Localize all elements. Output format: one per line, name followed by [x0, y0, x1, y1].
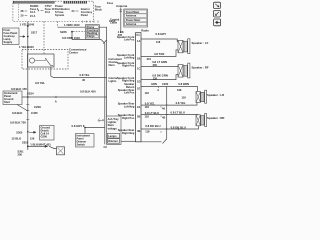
- wire RF neg: [141, 75, 178, 80]
- svg-text:200: 200: [153, 63, 158, 67]
- svg-text:Radio: Radio: [141, 28, 149, 32]
- fuse block dashed box: [13, 1, 94, 21]
- fuse RADIO label column: [30, 4, 39, 18]
- svg-text:Block: Block: [95, 8, 103, 12]
- svg-text:118: 118: [182, 96, 187, 100]
- svg-text:15 A: 15 A: [30, 14, 36, 18]
- wire LF pos: [141, 39, 178, 41]
- svg-text:Speaker : LF: Speaker : LF: [192, 41, 209, 45]
- fuse block hatched top bar 2: [64, 1, 88, 4]
- svg-text:0.8 YEL: 0.8 YEL: [35, 81, 45, 85]
- svg-text:198: 198: [177, 88, 182, 92]
- svg-text:156: 156: [30, 137, 35, 141]
- left ground box: [3, 91, 22, 105]
- arrow to ground callout: [29, 131, 36, 133]
- speaker LR: [196, 90, 207, 103]
- svg-text:A: A: [157, 88, 159, 92]
- node dot on yel dropper: [27, 25, 29, 27]
- ground wire horizontal: [22, 96, 107, 98]
- radio pin numbers: [137, 39, 140, 133]
- svg-text:C1: C1: [136, 33, 140, 37]
- svg-text:Power Mast: Power Mast: [126, 18, 141, 22]
- ground line down x28: [27, 97, 29, 150]
- svg-text:System: System: [55, 13, 65, 17]
- wire diagonal from ground box: [17, 105, 28, 112]
- svg-text:10 A: 10 A: [45, 10, 51, 14]
- ground distribution callout box: [40, 126, 55, 141]
- svg-text:Right Neg: Right Neg: [122, 79, 135, 83]
- antenna lead wire: [120, 8, 122, 34]
- ground G303 box: [57, 147, 65, 155]
- svg-text:Right Neg: Right Neg: [122, 131, 135, 135]
- svg-text:Dimmer: Dimmer: [108, 139, 118, 143]
- svg-text:Center: Center: [69, 51, 79, 55]
- svg-text:0.8 GRY 8: 0.8 GRY 8: [72, 124, 85, 128]
- dimmer branch wire: [85, 128, 105, 134]
- svg-text:Stud: Stud: [4, 100, 10, 104]
- svg-text:C405: C405: [31, 111, 38, 115]
- svg-text:0.8 TAN: 0.8 TAN: [154, 52, 164, 56]
- connector A marker: [55, 96, 57, 104]
- svg-text:1D: 1D: [137, 80, 140, 84]
- svg-text:Right Pos: Right Pos: [122, 64, 135, 68]
- svg-text:118: 118: [145, 105, 150, 109]
- connector cross marker: [177, 128, 179, 130]
- svg-text:0.8 LT BLU: 0.8 LT BLU: [171, 110, 185, 114]
- nav button 2: [214, 10, 221, 17]
- svg-text:Cable: Cable: [110, 21, 118, 25]
- svg-text:0.8 LT BLU: 0.8 LT BLU: [145, 111, 159, 115]
- interior lights note column: [81, 7, 93, 17]
- svg-text:C2: C2: [104, 145, 108, 149]
- svg-text:Left Neg: Left Neg: [124, 104, 135, 108]
- svg-text:0.8 BLK 150: 0.8 BLK 150: [11, 87, 27, 91]
- svg-text:S305: S305: [16, 130, 23, 134]
- left fuse label box: [3, 28, 20, 45]
- svg-text:Fixed Mast: Fixed Mast: [126, 10, 140, 14]
- speaker RF: [178, 63, 190, 78]
- wire dashed dropper to convenience center: [43, 22, 45, 55]
- wire S236 drop: [71, 32, 73, 40]
- nav button 1: [214, 2, 221, 8]
- node dot dimmer branch: [84, 127, 86, 129]
- node S217 dot: [27, 36, 29, 38]
- svg-text:0.8 YEL: 0.8 YEL: [80, 73, 90, 77]
- svg-text:4B: 4B: [162, 116, 165, 120]
- svg-text:S236: S236: [60, 30, 67, 34]
- fuse block hatched top bar 1: [13, 1, 55, 4]
- relay box (chime module): [28, 54, 55, 67]
- svg-text:0.8 GRY: 0.8 GRY: [156, 32, 167, 36]
- dimmer switch box: [76, 134, 95, 148]
- wire LR neg: [141, 102, 197, 105]
- wire orn dropper dashed: [57, 22, 59, 28]
- wire 0.8 BLK 450 label: [80, 89, 96, 93]
- connector tick: [26, 109, 29, 111]
- svg-text:Right Pos: Right Pos: [122, 116, 135, 120]
- wire LR pos: [141, 87, 198, 92]
- svg-text:40: 40: [82, 78, 86, 82]
- radio left pin labels: [117, 35, 135, 135]
- antenna connector arrows: [120, 9, 122, 12]
- connector ticks on rear wires: [161, 105, 168, 133]
- connector symbol left of trunk: [98, 119, 104, 123]
- svg-text:118: 118: [145, 130, 150, 134]
- antenna callout box: [124, 9, 148, 27]
- svg-text:C200: C200: [162, 82, 169, 86]
- svg-text:Supply: Supply: [4, 40, 13, 44]
- fuse CTSY label column: [45, 4, 55, 14]
- fuse block label: [95, 5, 103, 12]
- wire RF pos: [141, 66, 178, 68]
- fuse pin 24 arrow: [72, 9, 79, 13]
- svg-text:G200: G200: [41, 135, 48, 139]
- fuse pin 4 arrow: [38, 8, 44, 12]
- svg-text:C209: C209: [34, 105, 41, 109]
- svg-text:1B: 1B: [137, 56, 140, 60]
- svg-text:0.8 BLK 750: 0.8 BLK 750: [10, 121, 26, 125]
- arrow from left box to node: [20, 36, 26, 38]
- svg-text:0.8 YEL: 0.8 YEL: [145, 101, 155, 105]
- svg-text:2B: 2B: [137, 115, 140, 119]
- wire to ground G303: [49, 146, 57, 148]
- svg-text:Speaker : RF: Speaker : RF: [192, 66, 209, 70]
- svg-text:S217: S217: [31, 30, 38, 34]
- svg-text:306: 306: [18, 153, 23, 157]
- svg-text:201: 201: [147, 57, 152, 61]
- svg-text:2A: 2A: [137, 105, 140, 109]
- svg-text:Illum: Illum: [109, 63, 116, 67]
- wire 0.8 YEL 40 label: [80, 73, 90, 82]
- svg-text:Switch: Switch: [77, 143, 86, 147]
- trunk side box: [106, 116, 121, 144]
- svg-text:4B: 4B: [137, 129, 140, 133]
- trunk bus lines: [104, 43, 106, 144]
- svg-text:10 A: 10 A: [30, 10, 36, 14]
- svg-text:1E: 1E: [137, 87, 140, 91]
- wire 0.8 ORN 1040: [72, 40, 105, 44]
- svg-text:Speaker : RR: Speaker : RR: [207, 116, 224, 120]
- svg-text:118: 118: [145, 91, 150, 95]
- wire RR neg: [141, 126, 199, 129]
- svg-text:1 ORN 1040: 1 ORN 1040: [64, 23, 80, 27]
- svg-text:118: 118: [145, 115, 150, 119]
- svg-text:GRN: GRN: [151, 82, 157, 86]
- wire lamp box to radio: [121, 140, 136, 142]
- wire dropper x28: [27, 22, 29, 98]
- svg-text:118: 118: [156, 40, 161, 44]
- svg-text:Antenna: Antenna: [116, 4, 128, 8]
- svg-text:Antenna: Antenna: [126, 14, 137, 18]
- svg-text:Fuse: Fuse: [107, 1, 114, 5]
- node dot second: [27, 46, 29, 48]
- svg-text:1 YEL 1040: 1 YEL 1040: [19, 45, 34, 49]
- speaker RR: [196, 114, 207, 127]
- connector tick 2: [26, 118, 29, 120]
- svg-text:Antenna: Antenna: [126, 22, 137, 26]
- wire RR pos: [141, 114, 198, 117]
- svg-text:Panel: Panel: [81, 13, 88, 17]
- relay switch: [46, 59, 54, 66]
- svg-text:S301: S301: [22, 141, 29, 145]
- svg-text:A: A: [55, 100, 57, 104]
- convenience center dashed box: [22, 50, 68, 70]
- svg-text:Cargo: Cargo: [87, 34, 95, 38]
- power distribution note column: [55, 4, 70, 17]
- convenience center label: [69, 48, 87, 55]
- svg-text:Lights: Lights: [109, 79, 117, 83]
- svg-text:Speaker : LR: Speaker : LR: [207, 93, 224, 97]
- trunk note text 1: [109, 57, 123, 67]
- wire dashed link S236 to callout: [73, 31, 85, 33]
- buzzer circle: [29, 58, 34, 63]
- fuse block inner divider: [17, 4, 19, 21]
- speaker LF: [178, 39, 190, 54]
- svg-text:Left Pos: Left Pos: [124, 38, 135, 42]
- radio box: [121, 28, 162, 141]
- svg-text:0.8 BLK: 0.8 BLK: [80, 89, 90, 93]
- svg-text:12 BLK: 12 BLK: [12, 136, 22, 140]
- svg-text:Left Neg: Left Neg: [124, 56, 135, 60]
- wire crossover diagonal: [103, 40, 106, 44]
- svg-text:139: 139: [153, 76, 158, 80]
- trunk note text 2: [109, 76, 118, 83]
- svg-text:0.8 YEL: 0.8 YEL: [176, 101, 186, 105]
- callout box mid (courtesy components): [85, 25, 99, 39]
- svg-text:1A: 1A: [137, 39, 140, 43]
- svg-text:0.8 DK BLU: 0.8 DK BLU: [145, 124, 160, 128]
- svg-text:0.8 BRN: 0.8 BRN: [178, 82, 189, 86]
- pin stubs bottom of fuse block: [82, 21, 98, 23]
- wire LF neg: [141, 50, 178, 57]
- svg-text:Lamps: Lamps: [108, 134, 117, 138]
- svg-text:1C: 1C: [137, 67, 140, 71]
- svg-text:0.8 BLK: 0.8 BLK: [12, 111, 22, 115]
- nav button 3: [214, 19, 221, 26]
- coaxial cable label: [110, 18, 120, 25]
- svg-text:Left Pos: Left Pos: [124, 91, 135, 95]
- node S236: [60, 30, 73, 34]
- wire 1 ORN 1040: [58, 27, 107, 144]
- svg-text:voltage: voltage: [108, 126, 118, 130]
- wire from relay down: [51, 67, 107, 78]
- svg-text:450: 450: [91, 89, 96, 93]
- svg-text:S234: S234: [27, 92, 34, 96]
- connector column C200 rear: [163, 87, 167, 144]
- node S234: [27, 92, 34, 98]
